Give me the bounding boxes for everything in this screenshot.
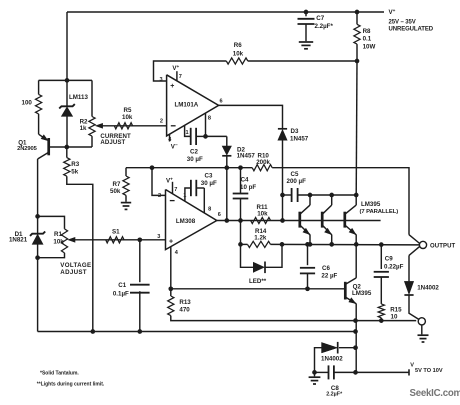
- svg-text:10: 10: [391, 313, 398, 320]
- svg-text:(7 PARALLEL): (7 PARALLEL): [360, 209, 399, 215]
- svg-text:2N2905: 2N2905: [17, 146, 38, 152]
- svg-text:V−: V−: [171, 142, 178, 150]
- svg-text:10k: 10k: [233, 51, 244, 58]
- svg-text:10k: 10k: [257, 211, 268, 218]
- svg-text:R7: R7: [113, 181, 121, 188]
- svg-text:V: V: [410, 362, 414, 368]
- svg-text:**Lights during current limit.: **Lights during current limit.: [37, 381, 105, 387]
- svg-text:200 µF: 200 µF: [287, 178, 307, 185]
- svg-text:1N457: 1N457: [237, 153, 256, 160]
- svg-text:R1: R1: [54, 231, 62, 238]
- svg-text:2.2µF*: 2.2µF*: [326, 392, 343, 398]
- svg-text:3: 3: [160, 77, 163, 83]
- svg-text:200k: 200k: [256, 159, 270, 166]
- svg-text:V+: V+: [172, 64, 179, 72]
- svg-text:ADJUST: ADJUST: [100, 139, 125, 146]
- svg-text:D3: D3: [291, 128, 299, 135]
- svg-text:LM395: LM395: [352, 290, 372, 297]
- svg-text:5k: 5k: [71, 168, 78, 175]
- svg-text:C2: C2: [190, 149, 198, 156]
- svg-text:5V TO 10V: 5V TO 10V: [415, 368, 443, 374]
- svg-text:10W: 10W: [363, 44, 376, 51]
- svg-text:2.2µF*: 2.2µF*: [315, 23, 334, 30]
- svg-text:*Solid Tantalum.: *Solid Tantalum.: [40, 370, 79, 376]
- svg-text:C9: C9: [385, 256, 393, 263]
- svg-text:8: 8: [208, 206, 211, 212]
- svg-text:1N4002: 1N4002: [321, 356, 343, 363]
- svg-text:1N457: 1N457: [290, 136, 309, 143]
- svg-text:50k: 50k: [110, 188, 121, 195]
- svg-text:6: 6: [218, 212, 221, 218]
- svg-text:1: 1: [183, 193, 186, 199]
- svg-text:8: 8: [208, 116, 211, 122]
- svg-text:1: 1: [186, 130, 189, 136]
- svg-text:C1: C1: [118, 282, 126, 289]
- svg-text:100: 100: [22, 100, 33, 107]
- svg-text:4: 4: [168, 137, 172, 143]
- svg-text:VOLTAGE: VOLTAGE: [60, 262, 91, 269]
- svg-text:ADJUST: ADJUST: [60, 269, 87, 276]
- svg-text:+: +: [169, 239, 173, 246]
- svg-text:+: +: [170, 83, 174, 90]
- svg-text:1.2k: 1.2k: [254, 234, 267, 241]
- svg-text:SeekIC.com: SeekIC.com: [410, 388, 460, 399]
- svg-text:2: 2: [158, 193, 161, 199]
- svg-text:10k: 10k: [122, 114, 133, 121]
- svg-text:1N821: 1N821: [9, 237, 28, 244]
- svg-text:C3: C3: [205, 172, 213, 179]
- svg-text:R8: R8: [363, 28, 371, 35]
- svg-text:2: 2: [160, 119, 163, 125]
- svg-text:3: 3: [157, 234, 160, 240]
- svg-text:1N4002: 1N4002: [417, 285, 439, 292]
- svg-text:LED**: LED**: [249, 278, 267, 285]
- svg-text:7: 7: [179, 74, 182, 80]
- svg-text:R6: R6: [234, 42, 242, 49]
- svg-text:7: 7: [174, 187, 177, 193]
- svg-text:0.1µF: 0.1µF: [113, 290, 129, 297]
- svg-text:0.1: 0.1: [363, 35, 372, 42]
- svg-text:LM101A: LM101A: [175, 101, 199, 108]
- svg-text:4: 4: [175, 250, 179, 256]
- svg-text:C6: C6: [322, 265, 330, 272]
- svg-text:R3: R3: [71, 161, 79, 168]
- svg-text:30 µF: 30 µF: [201, 180, 217, 187]
- svg-text:10k: 10k: [53, 238, 64, 245]
- svg-text:1k: 1k: [80, 125, 87, 132]
- svg-text:R13: R13: [179, 299, 191, 306]
- svg-text:22 µF: 22 µF: [321, 272, 337, 279]
- svg-text:R5: R5: [124, 107, 132, 114]
- svg-text:V+: V+: [389, 8, 396, 16]
- svg-text:C4: C4: [241, 177, 249, 184]
- svg-text:LM113: LM113: [69, 94, 88, 101]
- svg-text:OUTPUT: OUTPUT: [430, 244, 455, 250]
- svg-text:25V – 35V: 25V – 35V: [389, 20, 416, 26]
- svg-text:6: 6: [220, 98, 223, 104]
- svg-text:S1: S1: [112, 229, 120, 236]
- svg-text:0.22µF: 0.22µF: [384, 264, 404, 271]
- svg-text:UNREGULATED: UNREGULATED: [389, 27, 434, 33]
- svg-text:30 µF: 30 µF: [187, 156, 203, 163]
- svg-text:LM308: LM308: [176, 218, 196, 225]
- svg-text:C7: C7: [316, 15, 324, 22]
- svg-text:470: 470: [179, 307, 190, 314]
- svg-text:10 pF: 10 pF: [240, 184, 256, 191]
- svg-text:LM395: LM395: [361, 201, 381, 208]
